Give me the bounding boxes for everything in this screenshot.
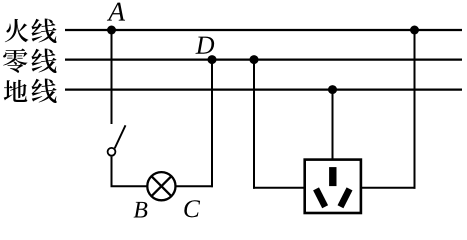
socket left slot bbox=[313, 187, 328, 208]
wire: socket right terminal to live riser bbox=[361, 187, 416, 189]
junction dot: earth to socket bbox=[328, 85, 337, 94]
node label A bbox=[107, 3, 125, 21]
wire: from node A down to switch bbox=[111, 30, 113, 124]
wire: switch to lamp row bbox=[111, 157, 113, 187]
wire: earth bus (dixian) bbox=[65, 88, 462, 90]
lamp L (circle with X) bbox=[147, 172, 175, 200]
node label B bbox=[134, 202, 148, 218]
text glyph label XIAN row1 bbox=[31, 19, 56, 44]
wire: neutral dot down to socket row bbox=[253, 60, 255, 189]
socket earth slot (top) bbox=[329, 167, 336, 186]
text glyph label XIAN row2 bbox=[31, 49, 56, 74]
wire: earth dot down to socket top bbox=[332, 90, 334, 160]
wire: riser lamp row up to node D bbox=[211, 60, 213, 188]
socket right slot bbox=[338, 187, 353, 208]
wire: lamp to D riser bbox=[176, 185, 214, 187]
junction dot: live to socket bbox=[410, 26, 419, 35]
wire: live dot down to socket row bbox=[414, 30, 416, 189]
node label D bbox=[195, 37, 214, 54]
wire: switch bottom to lamp bbox=[111, 185, 148, 187]
text glyph label HUO (live) bbox=[5, 19, 29, 42]
node label C bbox=[184, 200, 200, 217]
junction dot: neutral to socket bbox=[250, 55, 259, 64]
text glyph label XIAN row3 bbox=[32, 79, 57, 104]
text glyph label LING (neutral) bbox=[3, 48, 27, 72]
wire: live bus (huoxian) bbox=[65, 29, 462, 31]
node D junction dot bbox=[208, 55, 217, 64]
wire: neutral bus (lingxian) bbox=[65, 58, 462, 60]
three-pin socket outline bbox=[305, 160, 361, 213]
switch S pivot circle bbox=[108, 148, 116, 156]
node A junction dot bbox=[107, 26, 116, 35]
wire: to socket left terminal bbox=[253, 187, 305, 189]
text glyph label DI (earth) bbox=[4, 80, 28, 102]
switch S blade (open) bbox=[115, 125, 126, 148]
